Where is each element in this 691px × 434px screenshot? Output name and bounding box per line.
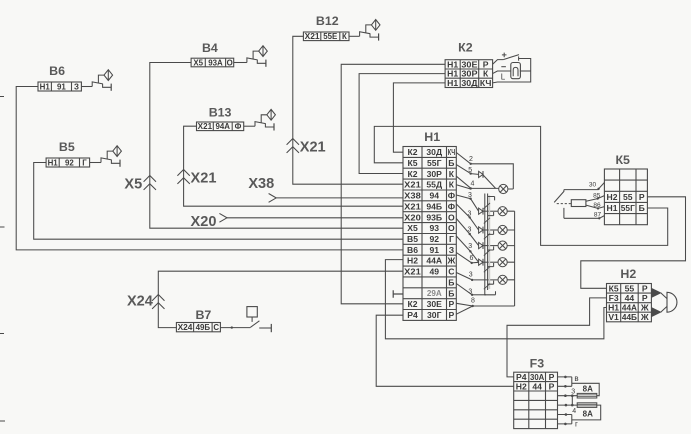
svg-text:Ж: Ж (640, 312, 649, 322)
svg-text:Н2: Н2 (407, 256, 418, 266)
svg-text:К5: К5 (609, 283, 619, 293)
svg-text:30Г: 30Г (427, 310, 442, 320)
svg-text:2: 2 (469, 156, 473, 163)
svg-text:Ж: Ж (640, 303, 649, 313)
svg-text:4: 4 (471, 181, 475, 188)
svg-text:Г: Г (449, 234, 454, 244)
svg-text:55Г: 55Г (427, 158, 442, 168)
relay K5 coil (557, 203, 572, 205)
lamp panel printed-circuit common bus (485, 194, 496, 295)
svg-text:5: 5 (468, 167, 472, 174)
svg-text:В6: В6 (407, 245, 418, 255)
svg-text:93Б: 93Б (426, 212, 442, 222)
H1 pin 3 wire from row 13 to lamp panel common (456, 284, 472, 295)
diode VD3 (479, 227, 483, 233)
svg-text:Б: Б (448, 277, 454, 287)
svg-text:F3: F3 (530, 357, 545, 371)
svg-text:К: К (449, 180, 455, 190)
switch B12 contact and sensor diamond (349, 35, 360, 37)
indicator lamp HL4 (498, 241, 507, 250)
relay K5 connection table (604, 169, 647, 225)
indicator lamp HL2 (498, 207, 507, 216)
svg-text:О: О (448, 223, 455, 233)
switch B13 contact and sensor diamond (244, 125, 255, 127)
diode VD4 (479, 243, 483, 249)
H1 pin 8 wire from rows 15 and 16 (456, 303, 472, 306)
wire K2 row1 to H1 row 15 (30Е Р) (341, 64, 445, 303)
connector X20 symbol (219, 213, 227, 222)
svg-text:L: L (501, 73, 506, 82)
H1 pin 2 wire from row 1 (456, 153, 470, 164)
wire B6 to H1 row 10 (91 З) (16, 87, 403, 250)
svg-text:К: К (449, 169, 455, 179)
svg-text:Н2: Н2 (516, 381, 527, 391)
svg-text:30Д: 30Д (426, 147, 442, 157)
svg-text:г: г (575, 419, 578, 428)
diode VD2 (479, 208, 483, 214)
indicator lamp HL1 (499, 184, 508, 193)
svg-text:3: 3 (468, 243, 472, 250)
svg-text:В4: В4 (202, 41, 218, 55)
svg-text:93: 93 (429, 223, 439, 233)
svg-text:Х38: Х38 (404, 191, 421, 201)
connector X21 symbol at B12 (287, 139, 299, 145)
svg-text:Ж: Ж (447, 256, 456, 266)
switch B7 connection table [Х24|49Б|С] (176, 323, 220, 332)
F3 feed loop to fuse F1 output (572, 383, 599, 395)
svg-text:В7: В7 (195, 308, 211, 322)
svg-text:Р: Р (549, 381, 555, 391)
svg-text:С: С (213, 323, 219, 332)
svg-text:3: 3 (469, 271, 473, 278)
svg-text:К2: К2 (407, 169, 417, 179)
H1 pin 6 wire from row 10 with diode (456, 253, 471, 263)
indicator lamp HL3 (498, 225, 507, 234)
svg-text:55: 55 (625, 283, 635, 293)
svg-text:Х21: Х21 (404, 201, 421, 211)
svg-text:6: 6 (469, 255, 473, 262)
svg-text:С: С (448, 267, 454, 277)
svg-text:Р4: Р4 (407, 310, 418, 320)
F3 fuse F2 output loop to node г (572, 405, 601, 420)
svg-text:Р: Р (639, 192, 645, 202)
svg-text:55Е: 55Е (323, 32, 337, 41)
svg-text:8: 8 (471, 298, 475, 305)
svg-text:94Б: 94Б (426, 201, 442, 211)
svg-text:Н1: Н1 (608, 303, 619, 313)
switch B5 contact and sensor diamond (90, 162, 101, 164)
svg-text:Х24: Х24 (127, 294, 154, 310)
indicator lamp HL5 (498, 258, 507, 267)
K2 internal lamp cartridge with minus terminal (493, 71, 512, 74)
svg-text:Х20: Х20 (191, 214, 217, 230)
svg-text:49Б: 49Б (196, 323, 211, 332)
svg-text:Н2: Н2 (620, 267, 636, 281)
svg-text:94: 94 (429, 191, 439, 201)
buzzer H2 sounder symbol (652, 288, 661, 297)
svg-text:Р: Р (449, 299, 455, 309)
H1 pin 5 wire from row 2 with diode (456, 165, 470, 174)
switch B12 connection table [Х21|55Е|К] (303, 32, 349, 41)
svg-text:Б: Б (448, 288, 454, 298)
connector X21 symbol at B13 (177, 170, 189, 176)
svg-text:44А: 44А (622, 303, 637, 313)
svg-text:Ф: Ф (448, 191, 456, 201)
svg-text:Х21: Х21 (198, 122, 213, 131)
svg-text:В6: В6 (49, 64, 65, 78)
scan artifact marks at left edge (0, 97, 5, 422)
wire X20 to H1 row 7 (93Б О) (227, 217, 403, 219)
wire B7 up through connector X24 to H1 row 12 (49 С) (158, 271, 403, 327)
svg-text:В12: В12 (316, 14, 339, 28)
svg-text:44: 44 (532, 381, 542, 391)
connector X5 symbol (144, 176, 156, 182)
svg-text:О: О (227, 58, 233, 67)
svg-text:49: 49 (429, 267, 439, 277)
svg-text:К2: К2 (458, 41, 473, 55)
svg-text:Х5: Х5 (407, 223, 418, 233)
svg-text:Р: Р (449, 310, 455, 320)
svg-text:Б: Б (639, 203, 645, 213)
svg-text:3: 3 (468, 210, 472, 217)
indicator unit K2 connection table (445, 60, 493, 88)
svg-text:55: 55 (623, 192, 633, 202)
H1 pin 3 wire from row 7 with diode (456, 219, 469, 235)
svg-text:Х21: Х21 (404, 267, 421, 277)
svg-text:55Г: 55Г (621, 203, 635, 213)
wire X38 to H1 row 5 (94 Ф) (276, 197, 403, 199)
fuse block F3 connection table (514, 372, 558, 428)
diode VD5 (479, 259, 483, 265)
svg-text:Н1: Н1 (40, 82, 51, 91)
svg-text:В13: В13 (209, 106, 232, 120)
svg-text:Х38: Х38 (248, 176, 274, 192)
wire 55Г net: H1 row 2 to K5 row 4 (374, 126, 667, 245)
svg-text:44А: 44А (426, 256, 442, 266)
svg-text:Х21: Х21 (191, 171, 217, 187)
switch B7 push-button contact with square actuator (220, 327, 250, 329)
svg-text:Б: Б (448, 158, 454, 168)
svg-text:30Д: 30Д (461, 78, 477, 88)
svg-text:91: 91 (429, 245, 439, 255)
H1 pin 3 wire from row 5 with diode (456, 195, 470, 199)
svg-text:3: 3 (468, 227, 472, 234)
svg-text:30Е: 30Е (427, 299, 443, 309)
svg-text:44Б: 44Б (622, 312, 637, 322)
svg-text:Х5: Х5 (193, 58, 203, 67)
wire 44А net: H2 row 3 to H1 row 11 (385, 260, 606, 339)
switch B4 contact and sensor diamond (234, 62, 247, 64)
svg-text:Н1: Н1 (48, 158, 59, 167)
buzzer H2 connection table (607, 284, 652, 322)
svg-text:О: О (448, 212, 455, 222)
svg-text:44: 44 (625, 293, 635, 303)
wire B4 down through connector X5 to H1 row 8 (93 О) (150, 63, 403, 229)
switch B5 connection table [Н1|92|Г] (46, 158, 90, 167)
svg-text:К5: К5 (615, 153, 630, 167)
lamp cluster supply bus on the right (507, 211, 514, 280)
switch B4 connection table [Х5|93А|О] (191, 58, 234, 67)
svg-text:Х5: Х5 (124, 176, 142, 192)
svg-text:Х21: Х21 (404, 180, 421, 190)
H1 pin 3 wire from row 9 (456, 236, 470, 251)
svg-text:92: 92 (65, 158, 74, 167)
wire K5 row 3 to H2 row 1 (55 Р) (581, 197, 686, 288)
svg-text:КЧ: КЧ (480, 78, 492, 88)
F3 pin 3 and fuse F1 input (558, 395, 578, 397)
svg-text:Ф: Ф (235, 122, 242, 131)
svg-text:F3: F3 (609, 293, 619, 303)
connector X24 symbol (152, 295, 164, 301)
svg-text:Х24: Х24 (178, 323, 193, 332)
svg-text:З: З (449, 245, 454, 255)
svg-text:Н1: Н1 (447, 78, 458, 88)
svg-text:Х20: Х20 (404, 212, 421, 222)
indicator lamp HL6 (498, 275, 507, 284)
svg-text:3: 3 (468, 289, 472, 296)
diode VD1 (479, 171, 483, 177)
svg-text:в: в (574, 374, 578, 383)
svg-text:V1: V1 (608, 312, 619, 322)
svg-text:КЧ: КЧ (448, 147, 455, 157)
svg-text:К: К (342, 32, 347, 41)
K2 internal L terminal wire and outer loop (493, 59, 531, 83)
svg-text:94А: 94А (216, 122, 231, 131)
svg-text:Х21: Х21 (300, 140, 326, 156)
svg-text:93А: 93А (208, 58, 223, 67)
switch B6 connection table [Н1|91|З] (38, 82, 81, 91)
F3 output pins rows 1-2 to node в (558, 377, 572, 386)
svg-text:К2: К2 (407, 147, 417, 157)
K2 internal switch contact with plus terminal (493, 60, 504, 65)
svg-text:29А: 29А (427, 289, 442, 298)
ground/body tap at H1 row 14 (29А) (393, 290, 403, 298)
svg-text:Р: Р (642, 293, 648, 303)
svg-text:8А: 8А (583, 410, 593, 419)
wire H1 row 16 to F3 row 2 (Р4 30Г) (376, 315, 514, 386)
wire K2 row2 to H1 row 3 (30Р К) (359, 74, 445, 174)
svg-text:8А: 8А (583, 385, 593, 394)
svg-text:Н1: Н1 (607, 203, 618, 213)
svg-text:Р: Р (642, 283, 648, 293)
svg-text:30: 30 (589, 182, 597, 189)
wire B12 down through connector X21 to H1 row 4 (55Д К) (293, 36, 403, 184)
wire B13 down through connector X21 to H1 row 6 (94Б Ф) (184, 126, 403, 206)
H1 pin 3 wire from row 6 with diode (456, 204, 469, 217)
svg-text:З: З (74, 82, 79, 91)
svg-text:Г: Г (82, 158, 87, 167)
switch B13 connection table [Х21|94А|Ф] (197, 122, 244, 131)
wire K2 row3 to H1 row 1 (30Д КЧ) (393, 83, 445, 152)
H1 pin 4 wire from rows 3 and 4 (456, 176, 470, 188)
instrument cluster H1 connection table (403, 147, 456, 321)
svg-text:В5: В5 (59, 140, 75, 154)
svg-text:3: 3 (571, 388, 575, 395)
svg-text:91: 91 (57, 82, 66, 91)
svg-text:К5: К5 (407, 158, 417, 168)
switch B6 contact and sensor diamond (81, 86, 92, 88)
F3 output pins rows 5-6 node г (558, 415, 572, 424)
connector X38 symbol (269, 194, 277, 203)
svg-text:3: 3 (468, 192, 472, 199)
F3 pin 4 and fuse F2 input (558, 404, 578, 406)
wire H2 row 2 to F3 row 1 (44 Р) (507, 298, 607, 377)
svg-text:Ф: Ф (448, 201, 456, 211)
wire B5 to H1 row 9 (92 Г) (34, 163, 403, 240)
svg-text:30Р: 30Р (427, 169, 443, 179)
svg-text:Х21: Х21 (305, 32, 321, 41)
F3 link pin3 to pin4 (571, 396, 573, 405)
H1 pin 3 wire from row 12 (456, 273, 472, 280)
svg-text:92: 92 (429, 234, 439, 244)
svg-text:55Д: 55Д (426, 180, 442, 190)
svg-text:4: 4 (572, 408, 576, 415)
svg-text:К2: К2 (407, 299, 417, 309)
svg-text:Н2: Н2 (607, 192, 618, 202)
svg-text:В5: В5 (407, 234, 418, 244)
svg-text:Н1: Н1 (424, 130, 440, 144)
